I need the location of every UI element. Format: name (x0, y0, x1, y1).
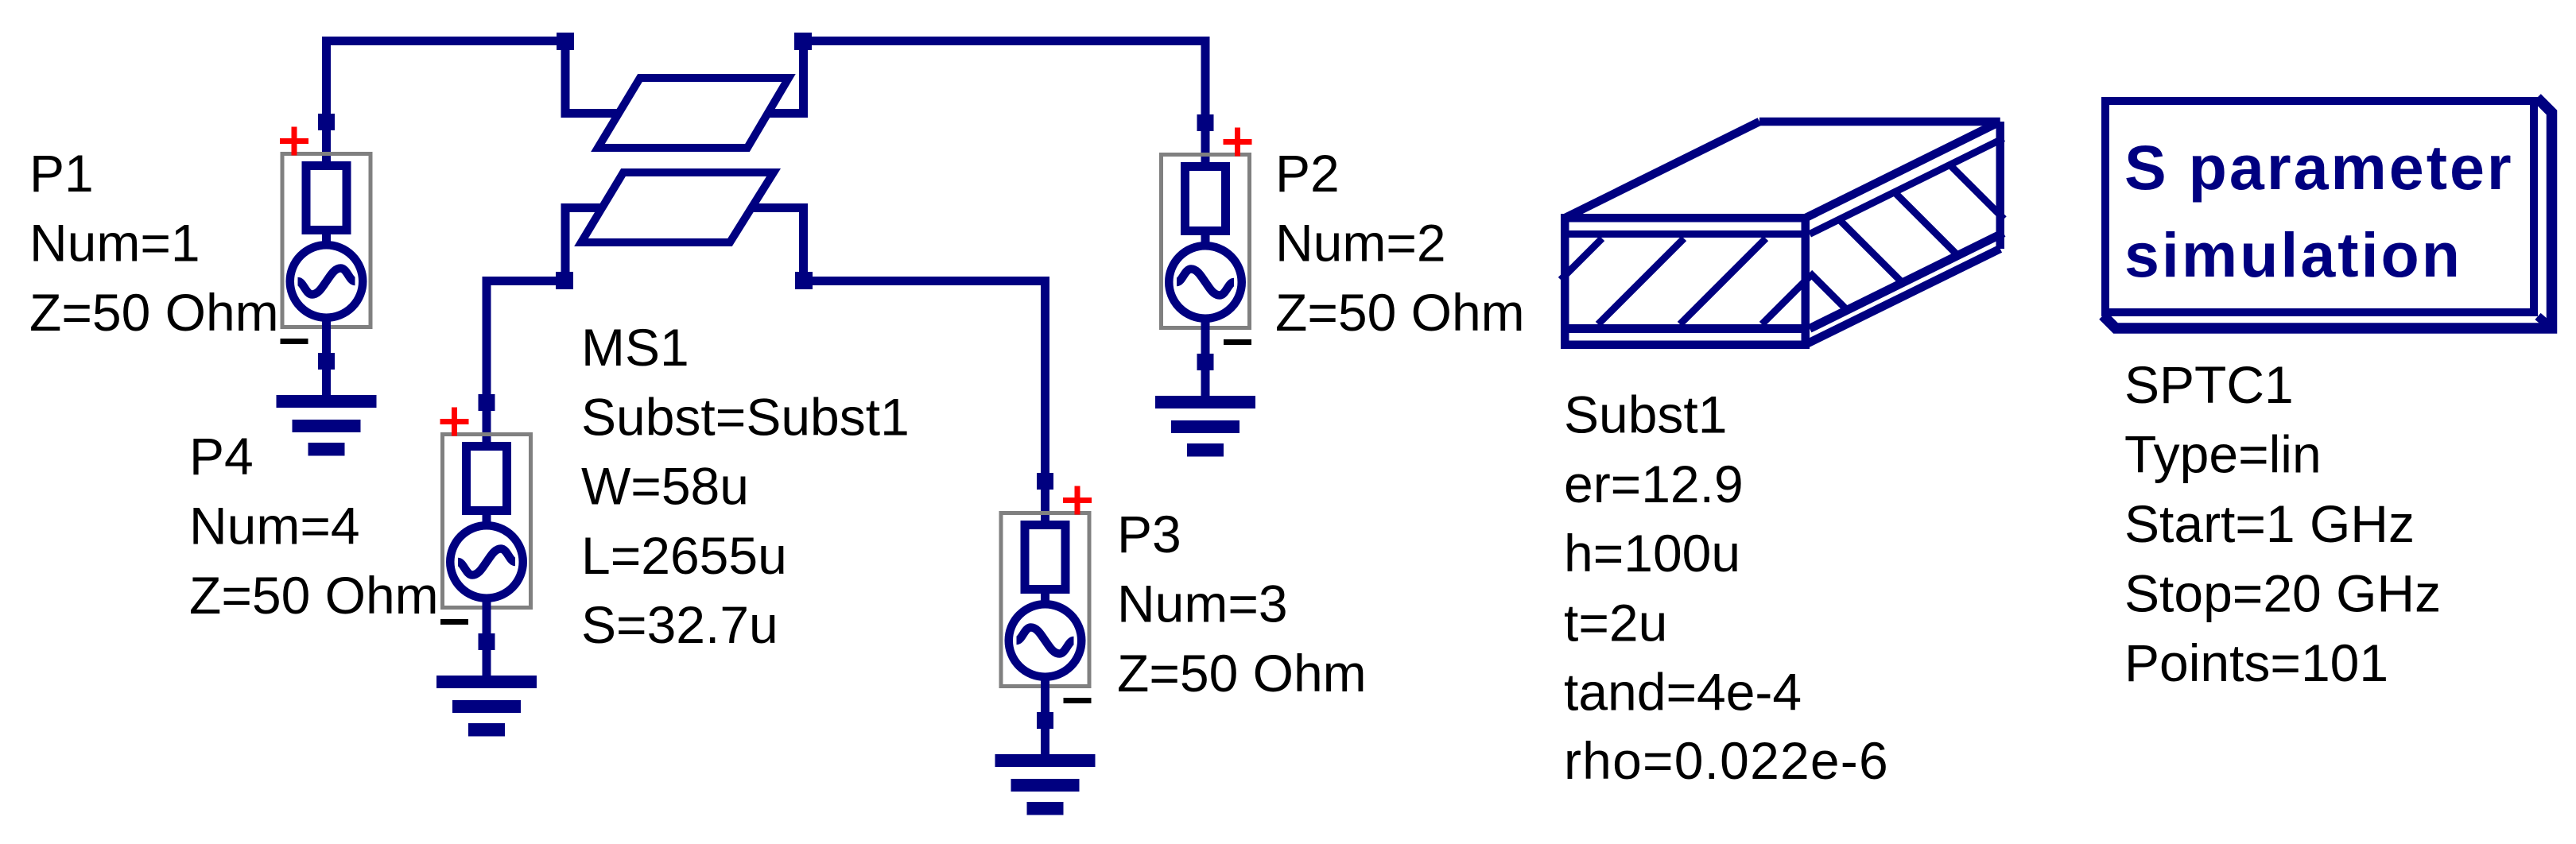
svg-text:P4: P4 (189, 427, 254, 486)
svg-text:er=12.9: er=12.9 (1564, 455, 1744, 513)
svg-text:Subst1: Subst1 (1564, 385, 1727, 444)
wire up to J2 (799, 41, 808, 118)
sim box frame (2105, 101, 2534, 312)
wire down to J4 (799, 207, 808, 281)
substrate bottom right edge (1806, 249, 2000, 345)
svg-text:tand=4e-4: tand=4e-4 (1564, 663, 1802, 722)
wire lead bottom-left of MS1 (561, 203, 603, 212)
svg-text:rho=0.022e-6: rho=0.022e-6 (1564, 731, 1889, 790)
node junction J4 (795, 272, 813, 289)
wire J3 to P4 column (483, 277, 570, 285)
node junction J3 (556, 272, 573, 289)
svg-text:simulation: simulation (2124, 219, 2462, 290)
svg-text:S=32.7u: S=32.7u (581, 595, 778, 654)
wire top horizontal left (322, 37, 569, 45)
wire P1 vertical top (322, 37, 331, 116)
port P4 (436, 393, 537, 737)
wire down to J3 (561, 207, 570, 281)
svg-text:SPTC1: SPTC1 (2124, 355, 2294, 414)
wire lead top-left of MS1 (561, 109, 620, 118)
S parameter simulation box SPTC1 (2103, 98, 2552, 328)
substrate side top metal line (1810, 138, 2004, 234)
svg-text:Z=50 Ohm: Z=50 Ohm (29, 283, 279, 342)
svg-text:t=2u: t=2u (1564, 593, 1667, 652)
port P1 (277, 112, 377, 456)
node junction J1 (557, 33, 574, 50)
wire lead bottom-right of MS1 (751, 203, 808, 212)
svg-text:Points=101: Points=101 (2124, 633, 2388, 692)
svg-text:W=58u: W=58u (581, 457, 749, 516)
svg-text:Num=2: Num=2 (1275, 214, 1446, 273)
svg-text:Subst=Subst1: Subst=Subst1 (581, 387, 910, 446)
port P3 (995, 471, 1096, 815)
svg-text:Num=1: Num=1 (29, 214, 200, 273)
svg-text:L=2655u: L=2655u (581, 526, 787, 585)
substrate side bottom metal line (1810, 233, 2004, 329)
substrate front face (1565, 218, 1806, 345)
wire J4 to P3 column (799, 277, 1049, 285)
substrate top face (1565, 122, 2000, 218)
wire P4 vertical (483, 277, 491, 394)
svg-text:P2: P2 (1275, 144, 1340, 203)
substrate back right edge (1996, 122, 2005, 249)
svg-text:Stop=20 GHz: Stop=20 GHz (2124, 564, 2441, 623)
substrate side hatching (1810, 165, 2004, 310)
wire lead top-right of MS1 (768, 109, 808, 118)
svg-text:Z=50 Ohm: Z=50 Ohm (1117, 644, 1367, 703)
svg-text:Num=3: Num=3 (1117, 575, 1288, 633)
wire J1 down (561, 41, 570, 118)
node junction J2 (794, 33, 812, 50)
svg-text:Z=50 Ohm: Z=50 Ohm (189, 566, 439, 625)
sim box corner bottom-right (2538, 316, 2549, 326)
wire P2 vertical top (1201, 37, 1210, 116)
svg-text:Type=lin: Type=lin (2124, 425, 2322, 484)
svg-text:Z=50 Ohm: Z=50 Ohm (1275, 283, 1525, 342)
svg-text:h=100u: h=100u (1564, 524, 1740, 583)
substrate Subst1 symbol (1561, 122, 2004, 345)
wire P3 vertical (1041, 277, 1049, 473)
coupled line MS1 top strip (598, 78, 789, 148)
svg-text:Start=1 GHz: Start=1 GHz (2124, 494, 2415, 553)
svg-text:MS1: MS1 (581, 318, 689, 377)
svg-text:Num=4: Num=4 (189, 497, 360, 556)
substrate front top metal line (1561, 230, 1810, 238)
substrate front bottom metal line (1561, 324, 1810, 333)
svg-text:S parameter: S parameter (2124, 132, 2514, 203)
substrate front hatching (1561, 238, 1810, 324)
coupled line MS1 bottom strip (581, 172, 774, 242)
port P2 (1155, 113, 1255, 457)
svg-text:P3: P3 (1117, 505, 1181, 563)
sim box shadow (2103, 98, 2552, 328)
wire top horizontal right (799, 37, 1210, 45)
svg-text:P1: P1 (29, 144, 94, 203)
